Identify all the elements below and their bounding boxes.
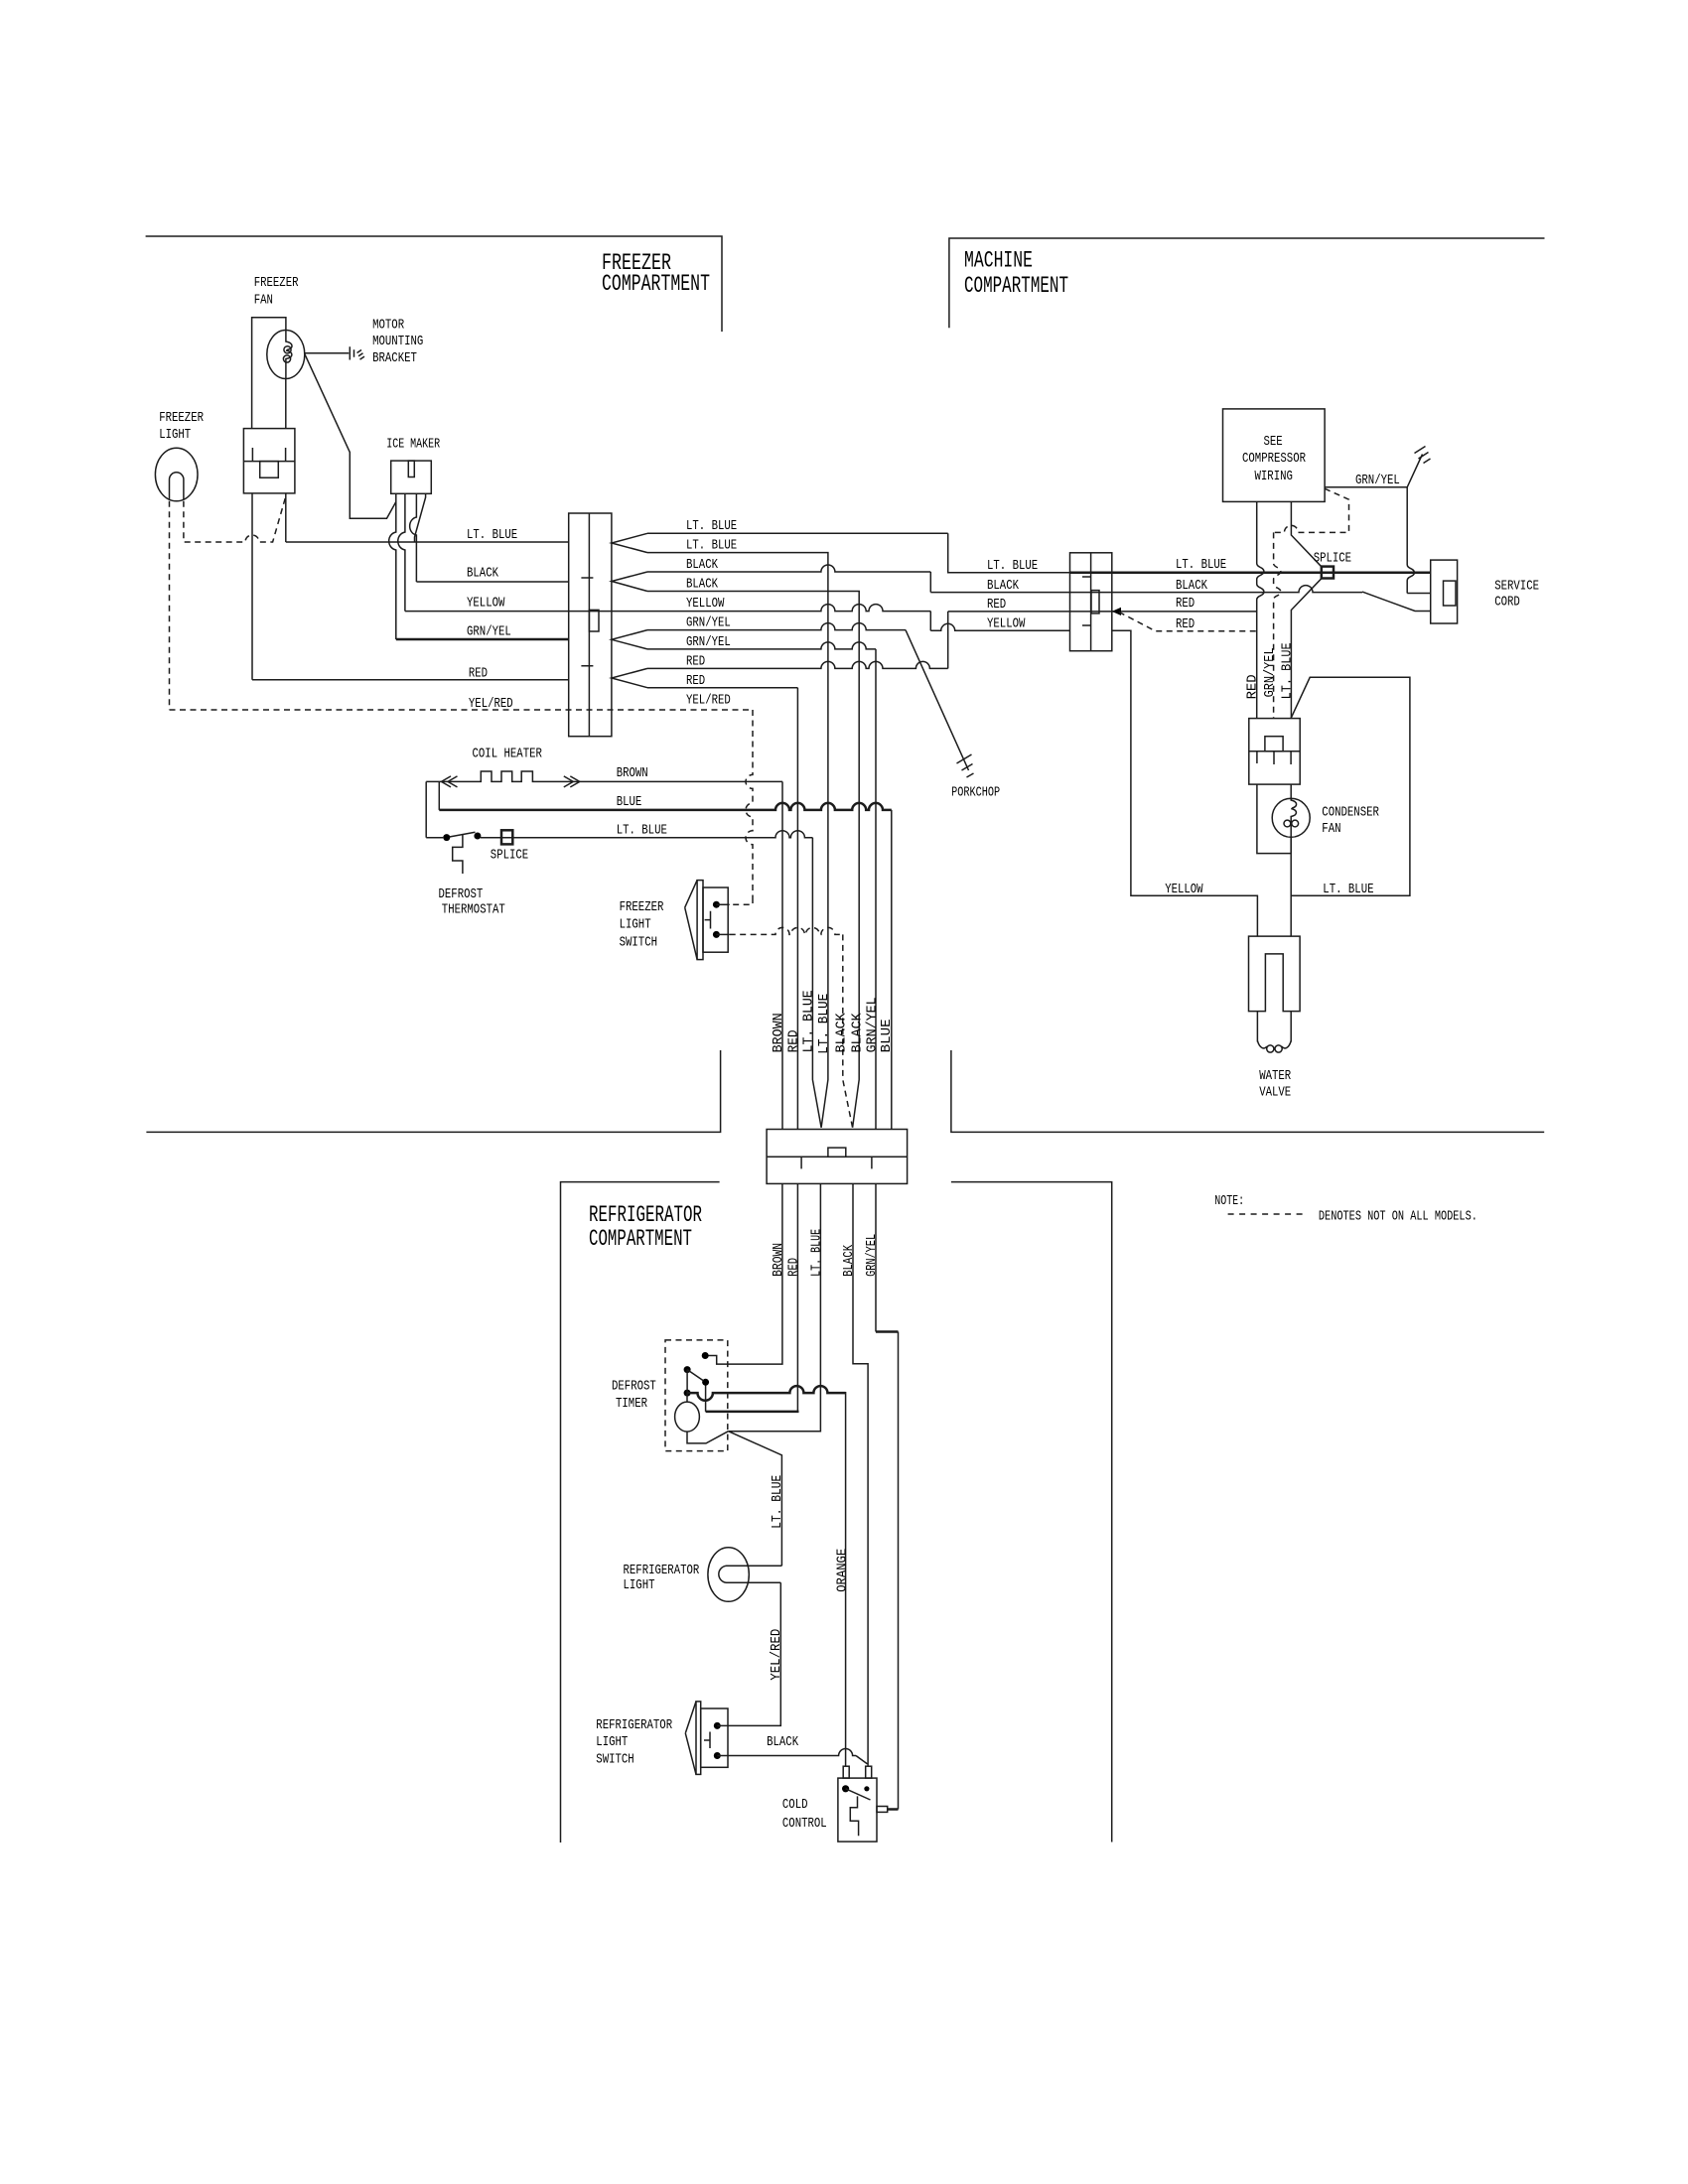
svg-text:LT. BLUE: LT. BLUE xyxy=(770,1475,785,1529)
cold control contacts xyxy=(842,1785,849,1792)
ice maker lead 1 GRN/YEL xyxy=(389,493,396,639)
freezer light dashed lead to YEL/RED xyxy=(169,501,171,710)
svg-text:RED: RED xyxy=(686,653,705,669)
svg-text:YEL/RED: YEL/RED xyxy=(769,1629,784,1681)
wire condenser fan left leg xyxy=(1257,784,1291,854)
freezer splice square xyxy=(501,830,512,844)
coil heater rail B xyxy=(438,781,440,810)
svg-text:GRN/YEL: GRN/YEL xyxy=(864,1234,880,1277)
defrost timer motor wire ORANGE xyxy=(687,1386,846,1401)
machine connector notch xyxy=(1091,591,1099,614)
wire GRN/YEL compressor ground xyxy=(1325,455,1422,487)
wire condenser fan to water valve xyxy=(1290,837,1292,936)
freezer connector arrow pair GRN/YEL xyxy=(612,630,647,649)
freezer fan connector notch xyxy=(260,462,279,478)
defrost timer box xyxy=(665,1340,728,1451)
svg-text:GRN/YEL: GRN/YEL xyxy=(686,634,731,650)
svg-text:RED: RED xyxy=(785,1029,801,1052)
svg-text:YEL/RED: YEL/RED xyxy=(469,696,513,712)
svg-text:SPLICE: SPLICE xyxy=(491,848,528,864)
coil heater chevrons left xyxy=(442,776,458,787)
wire GRN/YEL to service cord xyxy=(1407,487,1414,594)
wire GRN/YEL to porkchop xyxy=(647,623,906,630)
compressor plug pins xyxy=(1257,751,1291,764)
svg-text:SERVICE: SERVICE xyxy=(1494,578,1539,594)
wire RED compressor xyxy=(1257,501,1264,718)
defrost timer motor xyxy=(675,1402,700,1432)
svg-text:SEE: SEE xyxy=(1264,434,1283,450)
refrigerator compartment border right xyxy=(951,1182,1112,1843)
freezer light bulb xyxy=(155,448,198,501)
cold control pins xyxy=(843,1766,849,1778)
svg-text:COMPARTMENT: COMPARTMENT xyxy=(602,271,710,297)
freezer fan motor coil xyxy=(286,331,292,379)
motor mounting bracket lead xyxy=(305,352,350,354)
wire GRN/YEL branch down xyxy=(647,642,876,649)
dashed wire switch to BLACK xyxy=(730,927,843,934)
refrigerator harness connector xyxy=(767,1130,908,1184)
svg-text:YELLOW: YELLOW xyxy=(686,596,725,612)
freezer fan motor M1 xyxy=(267,331,305,379)
svg-text:LT. BLUE: LT. BLUE xyxy=(467,527,517,543)
defrost thermostat body xyxy=(453,835,463,874)
refrigerator light switch body xyxy=(701,1708,728,1767)
svg-text:SPLICE: SPLICE xyxy=(1314,551,1351,567)
defrost timer contact C xyxy=(702,1379,709,1386)
refrigerator light switch tee xyxy=(704,1732,710,1749)
wire BLACK freezer xyxy=(416,581,568,583)
wire YEL/RED light to switch xyxy=(729,1582,780,1725)
refrigerator harness connector notch xyxy=(828,1148,846,1157)
svg-text:MOUNTING: MOUNTING xyxy=(372,334,423,349)
svg-text:BLACK: BLACK xyxy=(686,577,718,593)
svg-text:YEL/RED: YEL/RED xyxy=(686,692,731,708)
ice maker box notch xyxy=(408,461,414,477)
svg-text:ICE MAKER: ICE MAKER xyxy=(386,437,440,453)
freezer connector arrow pair LT. BLUE xyxy=(612,533,647,552)
svg-text:DEFROST: DEFROST xyxy=(439,887,484,902)
svg-text:LT. BLUE: LT. BLUE xyxy=(686,538,737,554)
coil heater element BROWN xyxy=(426,771,782,781)
wire LT. BLUE to machine xyxy=(647,532,948,534)
wire BROWN down xyxy=(781,781,783,1129)
svg-text:FREEZER: FREEZER xyxy=(254,275,299,291)
svg-text:GRN/YEL: GRN/YEL xyxy=(686,615,731,631)
motor mounting bracket symbol xyxy=(350,346,364,359)
svg-text:BROWN: BROWN xyxy=(771,1013,786,1052)
wire LT. BLUE branch down xyxy=(647,553,828,1128)
svg-text:SWITCH: SWITCH xyxy=(620,935,657,951)
condenser fan motor xyxy=(1272,798,1310,837)
svg-text:FREEZER: FREEZER xyxy=(620,899,664,915)
freezer light switch contacts xyxy=(713,901,720,908)
wire GRN/YEL freezer xyxy=(396,638,569,641)
refrigerator light switch plate xyxy=(696,1702,701,1775)
svg-text:REFRIGERATOR: REFRIGERATOR xyxy=(624,1563,700,1578)
cold control tab xyxy=(877,1807,888,1813)
freezer compartment bottom border xyxy=(146,1050,720,1132)
svg-text:THERMOSTAT: THERMOSTAT xyxy=(442,902,505,918)
svg-text:GRN/YEL: GRN/YEL xyxy=(864,997,880,1052)
defrost timer contact A xyxy=(702,1352,709,1359)
wire LT. BLUE thermostat xyxy=(426,837,443,839)
dashed wire BLACK branch down xyxy=(843,934,853,1127)
svg-text:RED: RED xyxy=(686,673,705,689)
svg-text:BLACK: BLACK xyxy=(686,557,718,573)
svg-text:BLACK: BLACK xyxy=(467,566,498,582)
svg-text:BLACK: BLACK xyxy=(850,1013,866,1053)
wire YELLOW machine down xyxy=(1112,630,1258,936)
water valve body xyxy=(1249,936,1301,1012)
svg-text:COMPARTMENT: COMPARTMENT xyxy=(589,1226,692,1252)
water valve legs xyxy=(1257,1012,1291,1042)
wire LT. BLUE compressor to splice xyxy=(1291,501,1321,566)
svg-text:BLACK: BLACK xyxy=(834,1013,850,1053)
svg-text:NOTE:: NOTE: xyxy=(1214,1193,1244,1209)
svg-text:COIL HEATER: COIL HEATER xyxy=(473,747,543,762)
svg-text:BLACK: BLACK xyxy=(841,1244,857,1276)
svg-text:BLACK: BLACK xyxy=(987,578,1019,594)
freezer light switch plate xyxy=(697,881,703,960)
wire BLACK to cold control xyxy=(853,1183,868,1766)
freezer fan connector pins xyxy=(252,448,285,462)
svg-text:YELLOW: YELLOW xyxy=(467,596,505,612)
svg-text:LT. BLUE: LT. BLUE xyxy=(617,823,667,839)
freezer light switch actuator xyxy=(685,881,697,960)
defrost timer switch arm xyxy=(687,1370,703,1381)
freezer light switch body xyxy=(703,887,728,952)
defrost timer contact B xyxy=(684,1366,691,1373)
service cord plug xyxy=(1431,560,1458,623)
coil heater chevrons right xyxy=(564,776,580,787)
freezer fan ground diagonal to ice maker lead xyxy=(305,353,396,519)
wire RED freezer xyxy=(252,679,569,681)
wire BLACK to machine xyxy=(647,565,930,572)
wire RED machine xyxy=(948,611,1257,613)
svg-text:BROWN: BROWN xyxy=(617,765,648,781)
compressor plug body xyxy=(1249,719,1300,785)
wire LT. BLUE freezer xyxy=(286,541,569,543)
dashed RED wire xyxy=(1119,613,1257,631)
wire BROWN to defrost timer xyxy=(708,1183,782,1364)
wire LT. BLUE to refrigerator light xyxy=(729,1432,782,1567)
ice maker box xyxy=(391,461,432,493)
dashed GRN/YEL compressor xyxy=(1274,488,1349,532)
freezer connector notch xyxy=(589,610,599,631)
svg-text:LT. BLUE: LT. BLUE xyxy=(816,994,832,1054)
wire YELLOW to machine xyxy=(405,605,930,612)
svg-text:CONDENSER: CONDENSER xyxy=(1322,805,1379,821)
svg-text:RED: RED xyxy=(1176,616,1195,632)
svg-text:BLUE: BLUE xyxy=(879,1019,895,1052)
wire RED to machine xyxy=(647,661,948,668)
svg-text:GRN/YEL: GRN/YEL xyxy=(1262,647,1278,697)
machine connector ticks xyxy=(1082,577,1091,625)
ice maker lead 4 LT. BLUE xyxy=(415,493,426,542)
ice maker lead 2 YELLOW xyxy=(398,493,405,611)
freezer fan connector box xyxy=(243,429,295,493)
svg-text:GRN/YEL: GRN/YEL xyxy=(467,624,511,640)
defrost timer motor leads xyxy=(687,1393,729,1443)
svg-text:MACHINE: MACHINE xyxy=(964,248,1033,274)
svg-text:LT. BLUE: LT. BLUE xyxy=(1279,642,1295,699)
refrigerator light bulb xyxy=(708,1548,749,1602)
svg-text:CONTROL: CONTROL xyxy=(782,1816,827,1832)
ice maker lead 3 BLACK xyxy=(410,493,417,582)
machine connector body xyxy=(1070,553,1112,651)
svg-text:YELLOW: YELLOW xyxy=(987,616,1026,632)
svg-text:LT. BLUE: LT. BLUE xyxy=(987,558,1038,574)
svg-text:ORANGE: ORANGE xyxy=(834,1549,850,1592)
dashed wire YEL/RED to switch xyxy=(746,710,753,897)
cold control body xyxy=(838,1778,877,1842)
condenser fan motor coil xyxy=(1291,784,1296,854)
svg-text:DEFROST: DEFROST xyxy=(612,1379,656,1395)
machine compartment border xyxy=(949,238,1545,328)
wire LT. BLUE machine to service cord xyxy=(1070,571,1431,574)
wire BLUE down xyxy=(891,810,893,1130)
freezer connector ticks xyxy=(581,578,593,666)
svg-text:REFRIGERATOR: REFRIGERATOR xyxy=(596,1717,672,1733)
wire freezer fan to RED line xyxy=(251,493,253,680)
wire GRN/YEL to cold control xyxy=(875,1183,877,1331)
freezer connector arrow pair RED xyxy=(612,668,647,687)
svg-text:SWITCH: SWITCH xyxy=(596,1752,633,1768)
svg-text:LIGHT: LIGHT xyxy=(159,427,191,443)
freezer connector arrow pair BLACK xyxy=(612,572,647,592)
svg-text:REFRIGERATOR: REFRIGERATOR xyxy=(589,1202,702,1228)
svg-text:RED: RED xyxy=(785,1258,801,1277)
wire BLACK branch down xyxy=(647,592,859,1128)
svg-text:LIGHT: LIGHT xyxy=(620,917,651,933)
wire LT. BLUE to defrost timer xyxy=(729,1183,821,1431)
wire freezer fan to LT. BLUE line xyxy=(285,493,287,542)
svg-text:BROWN: BROWN xyxy=(771,1243,786,1277)
wire RED branch down xyxy=(647,687,797,689)
cold control capillary xyxy=(850,1796,858,1836)
compressor wiring box xyxy=(1223,409,1326,502)
svg-text:LT. BLUE: LT. BLUE xyxy=(808,1229,824,1277)
svg-text:PORKCHOP: PORKCHOP xyxy=(951,785,1000,801)
freezer fan motor lead to box xyxy=(285,379,287,429)
svg-text:LT. BLUE: LT. BLUE xyxy=(1176,557,1226,573)
svg-text:LT. BLUE: LT. BLUE xyxy=(800,990,816,1052)
refrigerator compartment border left xyxy=(561,1182,720,1843)
chassis ground hatch xyxy=(1415,447,1431,464)
freezer connector body xyxy=(569,513,612,737)
compressor plug notch xyxy=(1265,737,1283,751)
refrigerator harness connector ticks xyxy=(801,1157,872,1168)
svg-text:BLACK: BLACK xyxy=(767,1734,798,1750)
svg-text:FREEZER: FREEZER xyxy=(159,410,204,426)
svg-text:VALVE: VALVE xyxy=(1259,1085,1291,1101)
defrost thermostat contacts xyxy=(443,834,450,841)
freezer compartment border xyxy=(146,236,722,332)
svg-text:RED: RED xyxy=(1176,596,1195,612)
svg-text:GRN/YEL: GRN/YEL xyxy=(1355,473,1400,488)
wire RED to defrost timer xyxy=(796,1183,798,1412)
svg-text:CORD: CORD xyxy=(1494,595,1520,611)
refrigerator light switch actuator xyxy=(685,1702,696,1775)
svg-text:TIMER: TIMER xyxy=(616,1396,647,1412)
svg-text:COMPRESSOR: COMPRESSOR xyxy=(1242,451,1306,467)
wire YEL/RED dashed xyxy=(170,709,754,711)
svg-text:LT. BLUE: LT. BLUE xyxy=(686,518,737,534)
splice square xyxy=(1322,567,1334,579)
wire BLACK machine to service cord xyxy=(930,586,1362,593)
wire LT. BLUE coil down xyxy=(812,838,821,1128)
wire BLUE xyxy=(439,803,892,810)
svg-text:COLD: COLD xyxy=(782,1797,808,1813)
svg-text:DENOTES NOT ON ALL MODELS.: DENOTES NOT ON ALL MODELS. xyxy=(1319,1209,1477,1225)
svg-text:RED: RED xyxy=(469,665,488,681)
svg-text:LT. BLUE: LT. BLUE xyxy=(1323,882,1373,897)
water valve coil xyxy=(1257,1041,1291,1048)
dashed RED arrowhead xyxy=(1112,608,1121,615)
svg-text:LIGHT: LIGHT xyxy=(624,1577,655,1593)
svg-text:BLACK: BLACK xyxy=(1176,578,1207,594)
condenser fan circuit loop xyxy=(1291,677,1410,895)
freezer light switch tee xyxy=(705,911,711,929)
freezer light dashed lead to fan box xyxy=(184,496,286,542)
svg-text:FAN: FAN xyxy=(1322,821,1340,837)
svg-text:MOTOR: MOTOR xyxy=(372,318,404,334)
svg-text:YELLOW: YELLOW xyxy=(1165,882,1203,897)
refrigerator light filament xyxy=(719,1566,782,1582)
freezer light filament xyxy=(170,473,184,500)
wire LT. BLUE compressor plug xyxy=(1291,578,1322,718)
porkchop symbol xyxy=(957,754,974,777)
svg-text:WIRING: WIRING xyxy=(1255,469,1293,484)
svg-text:RED: RED xyxy=(1245,674,1261,699)
svg-text:FAN: FAN xyxy=(254,292,273,308)
porkchop pointer xyxy=(906,630,969,770)
defrost timer contact D xyxy=(684,1390,691,1397)
wire BLACK switch to cold control xyxy=(729,1749,856,1756)
svg-text:WATER: WATER xyxy=(1259,1068,1291,1084)
svg-text:RED: RED xyxy=(987,597,1006,613)
svg-text:COMPARTMENT: COMPARTMENT xyxy=(964,273,1068,299)
refrigerator light switch contacts xyxy=(714,1722,721,1729)
coil heater rail A xyxy=(425,781,427,837)
svg-text:BLUE: BLUE xyxy=(617,794,642,810)
svg-text:BRACKET: BRACKET xyxy=(372,350,417,366)
freezer fan wire loop xyxy=(252,318,286,429)
svg-text:LIGHT: LIGHT xyxy=(596,1734,628,1750)
machine compartment bottom border xyxy=(951,1050,1544,1132)
